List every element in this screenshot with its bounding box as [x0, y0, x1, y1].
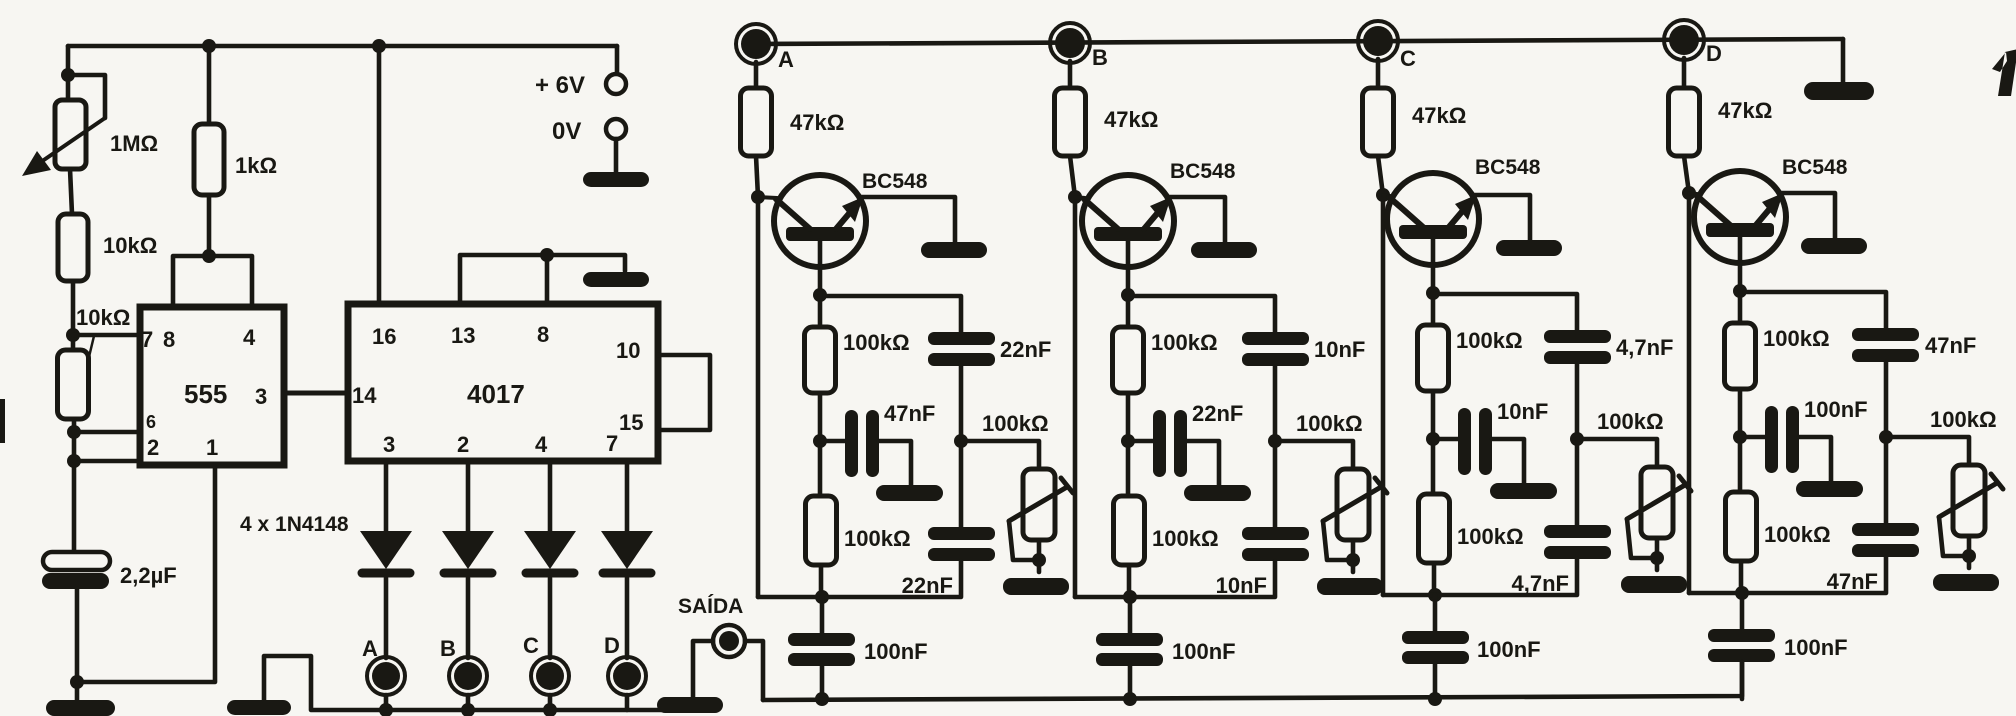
node coupling B [1121, 434, 1135, 448]
resistor R 1k [194, 124, 224, 195]
svg-text:4,7nF: 4,7nF [1512, 571, 1569, 596]
capacitor 47nF lower right D [1852, 523, 1919, 536]
svg-text:B: B [1092, 45, 1108, 70]
svg-text:100kΩ: 100kΩ [1457, 524, 1524, 549]
capacitor coupling 10nF C [1458, 408, 1471, 475]
capacitor 4,7nF lower right C [1544, 525, 1611, 538]
capacitor C1 2,2uF negative plate [42, 573, 109, 589]
svg-text:22nF: 22nF [1192, 401, 1243, 426]
wire input top rail [756, 39, 1843, 44]
wire diode B to jack [466, 578, 471, 658]
svg-text:10kΩ: 10kΩ [103, 233, 157, 258]
capacitor 22nF lower right A [928, 527, 995, 540]
wire pot wiper tie C [1627, 519, 1657, 558]
wire emitter D [1738, 237, 1743, 291]
node pins 8-4 tie [202, 249, 216, 263]
svg-text:100nF: 100nF [1784, 635, 1848, 660]
svg-text:47kΩ: 47kΩ [790, 110, 844, 135]
wire pins 13-8 tie to ground [460, 255, 625, 304]
wire 100k lower to box bottom A [819, 565, 824, 597]
svg-text:C: C [523, 633, 539, 658]
svg-text:47nF: 47nF [1827, 569, 1878, 594]
svg-text:B: B [440, 636, 456, 661]
capacitor coupling 47nF A [845, 410, 858, 477]
resistor 47k B [1055, 88, 1086, 156]
svg-text:555: 555 [184, 379, 227, 409]
transistor Q B BC548 [1082, 175, 1174, 267]
wire 100k lower to box bottom D [1739, 561, 1744, 593]
potentiometer 100k B [1337, 469, 1369, 540]
ground bottom left [46, 700, 115, 716]
wire 10k to pins 6 and 2 [72, 419, 77, 552]
wire pin 2 of 555 [74, 459, 140, 464]
svg-text:3: 3 [383, 432, 395, 457]
wire right rail to box bottom D [1689, 557, 1886, 593]
svg-text:A: A [362, 636, 378, 661]
ground collector A [921, 242, 987, 258]
wire 10k to node pin7 [71, 281, 76, 350]
wire emitter D to right rail [1740, 292, 1886, 328]
wire pot wiper tie B [1323, 521, 1353, 560]
resistor 100k lower C [1419, 494, 1450, 563]
capacitor 10nF upper right B [1242, 332, 1309, 345]
jack SAIDA output [713, 625, 745, 657]
ground coupling D [1796, 481, 1863, 497]
wire 1k to pins 8 and 4 [173, 195, 252, 307]
potentiometer 100k A [1023, 469, 1055, 540]
svg-text:100kΩ: 100kΩ [1296, 411, 1363, 436]
node pot bottom C [1650, 551, 1664, 565]
wire box bottom to 100nF B [1128, 597, 1133, 633]
resistor 47k D [1669, 88, 1700, 156]
wire jacks ground rail [264, 656, 670, 710]
wire emitter to 100k upper C [1431, 293, 1436, 325]
resistor 100k lower D [1726, 492, 1757, 561]
node base feed C [1376, 188, 1390, 202]
wire pot feed C [1577, 439, 1657, 467]
wire left rail D [1684, 156, 1689, 593]
wire 100k lower to box bottom B [1127, 565, 1132, 597]
wire 100nF to bottom rail A [820, 666, 825, 699]
wire pot to ground C [1655, 538, 1660, 570]
node base feed B [1068, 190, 1082, 204]
node coupling C [1426, 432, 1440, 446]
wire pin 6 of 555 [74, 430, 140, 435]
wire diode D to jack [625, 578, 630, 658]
capacitor 100nF output C [1402, 631, 1469, 644]
svg-text:1kΩ: 1kΩ [235, 153, 277, 178]
svg-text:8: 8 [537, 322, 549, 347]
resistor 10k upper [58, 214, 88, 281]
diode D1 1N4148 [360, 531, 412, 569]
ground collector B [1191, 242, 1257, 258]
svg-text:16: 16 [372, 324, 396, 349]
wire coupling cap to ground D [1799, 437, 1831, 481]
wire emitter B [1126, 241, 1131, 295]
wire coupling node to capacitor B [1128, 439, 1154, 444]
jack C output [531, 657, 569, 695]
capacitor 10nF lower right B [1242, 527, 1309, 540]
capacitor 100nF output D [1708, 629, 1775, 642]
ground pot D [1933, 574, 1999, 591]
svg-text:100kΩ: 100kΩ [1152, 526, 1219, 551]
ground coupling C [1490, 483, 1557, 499]
wire rail corner to +6V terminal [615, 46, 620, 74]
potentiometer 100k D [1953, 465, 1985, 536]
wire coupling cap to ground A [879, 441, 911, 485]
svg-text:100kΩ: 100kΩ [1930, 407, 1997, 432]
jack input B [1050, 23, 1090, 63]
terminal +6V [606, 74, 626, 94]
wire jack C to 47k [1376, 59, 1381, 88]
capacitor coupling 22nF B [1153, 410, 1166, 477]
wire diode C to jack [548, 578, 553, 658]
svg-text:100nF: 100nF [1477, 637, 1541, 662]
wire SAIDA to ground [693, 641, 713, 697]
resistor 100k upper A [805, 327, 836, 393]
wire pin 7 of 555 [73, 333, 140, 338]
transistor Q A BC548 [774, 175, 866, 267]
wire SAIDA to bottom rail [745, 641, 763, 700]
node top rail / pin16 [372, 39, 386, 53]
node pin2 [67, 454, 81, 468]
wire jack D to ground rail [625, 695, 630, 710]
jack input C [1358, 21, 1398, 61]
node pin7 [66, 328, 80, 342]
wire pot feed A [961, 441, 1039, 469]
capacitor coupling 100nF D [1765, 406, 1778, 473]
node pot bottom B [1346, 553, 1360, 567]
wire rail to pin 16 [377, 46, 382, 304]
wire left rail C [1378, 156, 1383, 595]
wire emitter C to right rail [1433, 294, 1577, 330]
wire diode A to jack [384, 578, 389, 658]
wire pin 10 to pin 15 loop [658, 355, 710, 430]
IC U2 4017 [348, 304, 658, 461]
jack D output [608, 657, 646, 695]
svg-text:10: 10 [616, 338, 640, 363]
node bottom rail C [1428, 692, 1442, 706]
wire right rail mid C [1575, 364, 1580, 525]
svg-text:D: D [604, 633, 620, 658]
wire jack B to ground rail [466, 695, 471, 710]
svg-text:10nF: 10nF [1314, 337, 1365, 362]
svg-text:1MΩ: 1MΩ [110, 131, 158, 156]
wire pot to ground B [1351, 540, 1356, 572]
wire pin 3 to pin 14 [284, 391, 348, 396]
wire jack B to 47k [1068, 61, 1073, 88]
svg-text:2: 2 [457, 432, 469, 457]
wire potentiometer wiper tie [68, 75, 105, 118]
terminal 0V [606, 119, 626, 139]
wire 100nF to bottom rail B [1128, 666, 1133, 699]
wire pot feed B [1275, 441, 1353, 469]
capacitor 100nF output B [1096, 633, 1163, 646]
svg-text:4017: 4017 [467, 379, 525, 409]
svg-text:22nF: 22nF [1000, 337, 1051, 362]
wire jack A to ground rail [384, 695, 389, 710]
svg-text:100kΩ: 100kΩ [1764, 522, 1831, 547]
node pins 13-8 tie [540, 248, 554, 262]
ground SAIDA [657, 697, 723, 713]
diode D4 1N4148 [601, 531, 653, 569]
svg-text:10nF: 10nF [1497, 399, 1548, 424]
scan artifact left edge [0, 399, 5, 443]
node emitter D [1733, 284, 1747, 298]
svg-text:10nF: 10nF [1216, 573, 1267, 598]
svg-text:100nF: 100nF [1172, 639, 1236, 664]
node coupling A [813, 434, 827, 448]
node pot bottom A [1032, 553, 1046, 567]
capacitor 47nF upper right D [1852, 328, 1919, 341]
wire emitter C [1431, 239, 1436, 293]
leader line to 10k trimmer [82, 336, 94, 386]
wire 100k to coupling node D [1738, 389, 1743, 492]
ground jacks rail [227, 700, 291, 715]
wire left rail B [1070, 156, 1075, 597]
node emitter A [813, 288, 827, 302]
IC U1 555 [140, 307, 284, 465]
node pin6 [67, 425, 81, 439]
wire collector D to ground [1781, 193, 1835, 239]
wire emitter to 100k upper B [1126, 295, 1131, 327]
ground pot C [1621, 576, 1687, 593]
svg-text:15: 15 [619, 410, 643, 435]
ground pot B [1317, 578, 1383, 595]
node pot top [61, 68, 75, 82]
node jack C ground [543, 703, 557, 716]
resistor 100k upper B [1113, 327, 1144, 393]
wire 100nF to bottom rail D [1740, 662, 1745, 699]
svg-text:47kΩ: 47kΩ [1104, 107, 1158, 132]
wire jack D to 47k [1682, 58, 1687, 88]
wire collector B to ground [1169, 197, 1225, 243]
wire collector A to ground [861, 197, 955, 243]
wire 100k lower to box bottom C [1432, 563, 1437, 595]
ground coupling A [876, 485, 943, 501]
wire right rail to box bottom A [758, 561, 961, 597]
wire left rail A [756, 156, 758, 597]
svg-text:SAÍDA: SAÍDA [678, 595, 743, 618]
wire 100k to coupling node C [1431, 391, 1436, 494]
wire pot to R 10k [70, 169, 72, 214]
resistor 100k upper D [1725, 323, 1756, 389]
wire jack C to ground rail [548, 695, 553, 710]
wire coupling node to capacitor D [1740, 435, 1766, 440]
wire C1 to ground [75, 589, 80, 700]
wire emitter to 100k upper D [1738, 291, 1743, 323]
jack input A [736, 24, 776, 64]
svg-text:100kΩ: 100kΩ [1151, 330, 1218, 355]
wire pot to ground D [1967, 536, 1972, 568]
svg-text:3: 3 [255, 384, 267, 409]
wire collector C to ground [1474, 195, 1530, 241]
wire coupling node to capacitor C [1433, 437, 1459, 442]
svg-text:4: 4 [243, 325, 256, 350]
svg-text:C: C [1400, 46, 1416, 71]
wire 100nF to bottom rail C [1433, 664, 1438, 699]
diode D2 1N4148 [442, 531, 494, 569]
ground collector D [1801, 238, 1867, 254]
wire 4017 output to diode A [384, 461, 389, 531]
svg-text:10kΩ: 10kΩ [76, 305, 130, 330]
jack B output [449, 657, 487, 695]
wire coupling cap to ground C [1492, 439, 1524, 483]
wire box bottom to 100nF C [1433, 595, 1438, 631]
wire 100k to coupling node B [1126, 393, 1131, 496]
wire jack A to 47k [754, 62, 759, 88]
svg-text:100kΩ: 100kΩ [1763, 326, 1830, 351]
node jack A ground [379, 703, 393, 716]
svg-text:7: 7 [141, 327, 153, 352]
wire rail to R 1k [207, 46, 212, 124]
svg-text:100kΩ: 100kΩ [843, 330, 910, 355]
ground 4017 pin 8 [583, 272, 649, 287]
node box bottom B [1123, 590, 1137, 604]
node jack B ground [461, 703, 475, 716]
wire left rail down from +V [66, 46, 71, 100]
wire coupling node to capacitor A [820, 439, 846, 444]
svg-text:100nF: 100nF [864, 639, 928, 664]
svg-text:47nF: 47nF [884, 401, 935, 426]
node box bottom A [815, 590, 829, 604]
ground collector C [1496, 240, 1562, 256]
svg-text:47kΩ: 47kΩ [1412, 103, 1466, 128]
node box bottom D [1735, 586, 1749, 600]
ground below 0V [583, 172, 649, 187]
figure number 1 [1992, 49, 2016, 96]
node emitter B [1121, 288, 1135, 302]
node bottom rail B [1123, 692, 1137, 706]
resistor 47k A [741, 88, 772, 156]
svg-text:47nF: 47nF [1925, 333, 1976, 358]
wire 4017 output to diode D [625, 461, 630, 531]
svg-text:100kΩ: 100kΩ [982, 411, 1049, 436]
resistor 100k lower B [1114, 496, 1145, 565]
svg-text:BC548: BC548 [1170, 160, 1236, 183]
resistor 47k C [1363, 88, 1394, 156]
node pot feed D [1879, 430, 1893, 444]
svg-text:BC548: BC548 [1782, 156, 1848, 179]
node pot feed C [1570, 432, 1584, 446]
resistor 10k lower [58, 350, 89, 419]
wire pin 1 of 555 to ground node [77, 467, 215, 682]
capacitor 4,7nF upper right C [1544, 330, 1611, 343]
wire 100k to coupling node A [818, 393, 823, 496]
wire box bottom to 100nF A [820, 597, 825, 633]
wire emitter A [818, 241, 823, 295]
jack input D [1664, 20, 1704, 60]
wire coupling cap to ground B [1187, 441, 1219, 485]
node coupling D [1733, 430, 1747, 444]
wire pot wiper tie D [1939, 517, 1969, 556]
svg-text:7: 7 [606, 431, 618, 456]
wire emitter A to right rail [820, 296, 961, 332]
svg-text:D: D [1706, 41, 1722, 66]
wire emitter B to right rail [1128, 296, 1275, 332]
wire right rail mid B [1273, 366, 1278, 527]
ground coupling B [1184, 485, 1251, 501]
wire 0V to ground [614, 139, 619, 172]
wire +V top rail [68, 44, 617, 49]
wire right rail to box bottom B [1075, 561, 1275, 597]
node pot feed B [1268, 434, 1282, 448]
wire right rail to box bottom C [1383, 559, 1577, 595]
node pot bottom D [1962, 549, 1976, 563]
node pin1 ground [70, 675, 84, 689]
svg-text:2: 2 [147, 435, 159, 460]
svg-text:1: 1 [206, 435, 218, 460]
capacitor 100nF output A [788, 633, 855, 646]
wire pot wiper tie A [1009, 521, 1039, 560]
svg-text:100kΩ: 100kΩ [844, 526, 911, 551]
svg-text:14: 14 [352, 383, 377, 408]
transistor Q D BC548 [1694, 171, 1786, 263]
node emitter C [1426, 286, 1440, 300]
svg-text:100kΩ: 100kΩ [1597, 409, 1664, 434]
wire emitter to 100k upper A [818, 295, 823, 327]
svg-text:22nF: 22nF [902, 573, 953, 598]
capacitor C1 2,2uF positive plate [43, 552, 110, 570]
ground pot A [1003, 578, 1069, 595]
svg-text:100kΩ: 100kΩ [1456, 328, 1523, 353]
wire 4017 output to diode C [548, 461, 553, 531]
svg-text:4 x 1N4148: 4 x 1N4148 [240, 513, 349, 536]
node box bottom C [1428, 588, 1442, 602]
svg-text:6: 6 [146, 412, 156, 432]
diode D3 1N4148 [524, 531, 576, 569]
svg-text:+ 6V: + 6V [535, 72, 585, 99]
svg-text:8: 8 [163, 327, 175, 352]
svg-text:47kΩ: 47kΩ [1718, 98, 1772, 123]
wire box bottom to 100nF D [1740, 593, 1745, 629]
node top rail / 1k [202, 39, 216, 53]
ground top rail end [1804, 82, 1874, 100]
transistor Q C BC548 [1387, 173, 1479, 265]
wire 4017 output to diode B [466, 461, 471, 531]
svg-text:2,2µF: 2,2µF [120, 563, 177, 588]
svg-text:4,7nF: 4,7nF [1616, 335, 1673, 360]
wire right rail mid D [1884, 362, 1889, 523]
capacitor 22nF upper right A [928, 332, 995, 345]
svg-text:4: 4 [535, 432, 548, 457]
node pot feed A [954, 434, 968, 448]
wire pot to ground A [1037, 540, 1042, 572]
wire right rail mid A [959, 366, 964, 527]
svg-text:0V: 0V [552, 118, 581, 145]
svg-text:BC548: BC548 [1475, 156, 1541, 179]
node bottom rail A [815, 692, 829, 706]
wire rail end to ground [1841, 39, 1846, 82]
potentiometer P1 arrow [38, 118, 105, 164]
svg-text:13: 13 [451, 323, 475, 348]
wire output bottom rail [763, 662, 1742, 700]
svg-text:A: A [778, 47, 794, 72]
svg-text:100nF: 100nF [1804, 397, 1868, 422]
node base feed A [751, 190, 765, 204]
potentiometer P1 1M body [55, 100, 86, 169]
node base feed D [1682, 186, 1696, 200]
jack A output [367, 657, 405, 695]
resistor 100k lower A [806, 496, 837, 565]
resistor 100k upper C [1418, 325, 1449, 391]
svg-text:BC548: BC548 [862, 170, 928, 193]
potentiometer 100k C [1641, 467, 1673, 538]
wire pot feed D [1886, 437, 1969, 465]
